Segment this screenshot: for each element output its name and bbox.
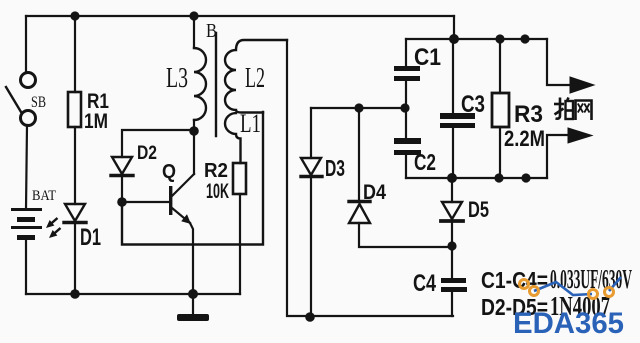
wire base node to base [122,201,169,203]
junction base node [117,197,127,207]
wire mid rail [311,107,406,109]
svg-text:B: B [206,20,217,42]
wire battery to bottom rail [25,240,27,294]
resistor R2 [233,163,246,194]
wire switch to battery [26,125,27,209]
LED D1 [44,204,86,241]
inductor L3 [194,48,206,120]
wire base node down and tap return [122,112,263,245]
svg-text:C2: C2 [414,149,436,175]
output arrow upper [547,39,594,93]
wire D3 to HV bottom rail [310,178,312,316]
svg-text:2.2M: 2.2M [504,126,545,151]
svg-text:D4: D4 [363,181,386,204]
wire D1 to bottom rail [74,224,76,294]
junction D3 HV bottom rail [305,312,315,322]
svg-text:D5: D5 [468,197,489,222]
watermark trace [534,282,592,295]
wire HV bottom node row [406,177,547,179]
junction C1 C2 midpoint [400,103,409,112]
transformer core B [215,33,217,136]
wire top rail [26,15,454,17]
svg-text:D1: D1 [80,224,101,251]
wire D4 to C4 node [359,223,452,247]
wire L2 top to HV bottom rail [287,40,453,316]
svg-text:C3: C3 [461,91,485,118]
junction D1 bottom rail [70,289,80,299]
wire L3 to collector node [193,120,195,131]
svg-text:SB: SB [31,94,46,111]
junction D5 C4 node [447,241,456,250]
output arrow lower [547,128,592,178]
wire L3 branch [193,16,195,48]
junction emitter ground node [188,289,198,299]
junction R1 top rail [70,11,79,20]
label paiwang (Chinese output) [554,98,592,121]
transistor Q [169,130,194,294]
capacitor C2 [394,108,421,178]
inductor L1 [225,113,241,163]
junction D4 mid rail [354,103,363,112]
svg-text:R2: R2 [204,160,228,182]
svg-text:10K: 10K [206,180,229,203]
watermark pads [520,280,614,299]
wire top rail drop [453,16,455,39]
junction C3 bottom node [447,173,457,183]
diode D4 [349,202,370,224]
svg-text:D2: D2 [137,143,157,164]
junction output top [520,34,529,43]
capacitor C3 [440,39,475,178]
diode D2 [111,157,133,176]
diode D5 [441,178,463,246]
svg-text:L1: L1 [240,109,261,138]
junction collector node [189,126,199,136]
svg-text:L2: L2 [245,63,265,94]
wire D2 to base node [121,177,123,202]
junction HV top node [449,34,459,44]
wire HV top node row [406,38,547,40]
watermark EDA365 [513,277,624,340]
svg-text:1M: 1M [84,110,108,133]
junction R3 top [495,34,504,43]
switch SB [6,73,36,126]
svg-text:L3: L3 [166,63,188,94]
svg-text:EDA365: EDA365 [513,307,624,340]
junction L3 top rail [189,11,198,20]
capacitor C4 [441,246,467,316]
wire R2 to bottom rail [239,194,241,294]
wire R1 to D1 [74,127,76,204]
svg-text:C4: C4 [413,270,436,297]
svg-text:BAT: BAT [32,188,56,204]
wire D3 branch upper [310,108,312,158]
svg-text:R3: R3 [514,101,543,128]
wire bottom rail [26,293,240,295]
wire left rail to switch [25,16,27,73]
diode D3 [301,158,322,177]
battery BAT [11,208,42,240]
svg-text:D3: D3 [325,155,345,181]
wire D4 branch upper [358,108,360,200]
svg-text:C1: C1 [414,44,441,71]
resistor R3 [492,39,509,178]
wire collector node to D2 [122,130,194,157]
resistor R1 [68,92,81,127]
svg-text:Q: Q [162,161,176,183]
junction R3 bottom [494,173,503,182]
ground [177,294,209,321]
wire R1 branch top [74,16,76,92]
capacitor C1 [394,39,420,108]
inductor L2 [225,40,287,113]
junction output bottom [521,173,530,182]
